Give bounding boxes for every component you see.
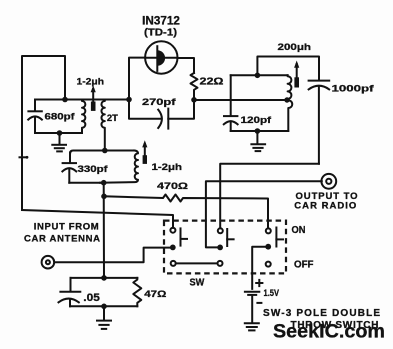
- node tunnel diode left junction: [126, 97, 132, 103]
- svg-text:120pf: 120pf: [241, 115, 273, 126]
- wire RC network bottom rail: [70, 305, 137, 307]
- svg-text:.05: .05: [83, 292, 100, 304]
- capacitor C4 1000pf: [309, 81, 330, 164]
- node 22 ohm bottom junction: [191, 97, 197, 103]
- node 680pf tank ground junction: [57, 130, 63, 136]
- node RC network ground junction: [101, 304, 107, 310]
- wire H2 output connector to switch pole2 common: [206, 181, 322, 247]
- svg-text:200μh: 200μh: [278, 42, 312, 53]
- node 120pf tank ground junction: [255, 128, 261, 134]
- resistor R1 22 ohm: [191, 73, 198, 100]
- ground under battery: [245, 323, 259, 330]
- wire outer loop from antenna switch to 680pf tank top: [22, 56, 65, 210]
- svg-text:47Ω: 47Ω: [144, 289, 166, 300]
- tunnel diode D1 1N3712 wires: [129, 58, 194, 100]
- battery BT1 1.5V: [245, 280, 263, 323]
- capacitor C1 680pf: [28, 100, 42, 134]
- inductor L4 330pf tank coil: [100, 151, 138, 183]
- wire link between pole1 and pole2 bottom throws: [176, 262, 217, 264]
- tuning slug arrow of L4 1-2uh: [142, 140, 147, 164]
- svg-text:270pf: 270pf: [142, 97, 177, 108]
- svg-text:2T: 2T: [107, 113, 118, 124]
- node coil tap: [284, 97, 289, 102]
- svg-text:CAR ANTENNA: CAR ANTENNA: [24, 233, 100, 244]
- svg-text:ON: ON: [292, 225, 306, 236]
- inductor L2 2T coil: [101, 100, 104, 151]
- wire 330pf tank bottom rail: [69, 182, 103, 184]
- svg-text:CAR RADIO: CAR RADIO: [294, 201, 356, 212]
- ground under 120pf tank: [251, 131, 265, 151]
- wire 200uh top link: [257, 57, 319, 81]
- tuning slug arrow of L1/L2 1-2uh: [91, 86, 96, 111]
- wire trunk from 330pf tank bottom down to RC network: [103, 183, 105, 278]
- wire 330pf tank top rail: [70, 151, 135, 154]
- wire H3 antenna loop to switch pole1 top: [22, 210, 173, 228]
- svg-text:1000pf: 1000pf: [332, 83, 375, 94]
- wire tap rail from 22 ohm junction to 120pf tank coil tap: [194, 99, 287, 101]
- wire pole3 common to battery: [252, 247, 265, 289]
- svg-text:1-2μh: 1-2μh: [152, 162, 183, 173]
- inductor L1 680pf tank coil: [82, 100, 85, 134]
- tuning slug arrow of L3 200uh: [294, 61, 299, 88]
- connector J2 output to car radio: [321, 174, 336, 189]
- ground under RC network: [97, 306, 111, 329]
- switch pole 1: [170, 228, 187, 266]
- wire bottom rail 680pf tank: [35, 132, 82, 134]
- switch pole 2: [217, 228, 233, 266]
- svg-text:INPUT FROM: INPUT FROM: [34, 221, 99, 232]
- wire H1 output tank to switch pole2 top: [220, 164, 319, 229]
- svg-text:(TD-1): (TD-1): [144, 27, 177, 39]
- node 470 ohm junction on trunk: [101, 194, 107, 200]
- svg-text:1.5V: 1.5V: [264, 288, 280, 299]
- svg-text:SW: SW: [190, 278, 205, 289]
- wire RC network top rail: [71, 277, 138, 279]
- tunnel diode D1 1N3712 symbol: [145, 41, 177, 73]
- capacitor C5 330pf: [62, 153, 76, 183]
- capacitor C6 .05: [59, 278, 81, 306]
- svg-text:22Ω: 22Ω: [200, 76, 224, 87]
- switch pole 3: [265, 228, 283, 267]
- capacitor C2 270pf loop: [129, 100, 194, 129]
- svg-text:SW-3 POLE DOUBLE: SW-3 POLE DOUBLE: [263, 308, 380, 319]
- node 120pf tank top junction: [255, 73, 261, 79]
- wire antenna to switch pole1 common: [54, 248, 170, 263]
- tick mark on left wire: [20, 156, 29, 159]
- svg-text:1-2μh: 1-2μh: [77, 76, 105, 87]
- svg-text:470Ω: 470Ω: [157, 181, 189, 192]
- svg-text:330pf: 330pf: [78, 164, 109, 175]
- svg-text:OFF: OFF: [294, 259, 314, 270]
- svg-text:SeekIC.com: SeekIC.com: [273, 321, 385, 343]
- wire bottom rail 120pf tank: [231, 130, 289, 132]
- resistor R2 470 ohm: [104, 195, 268, 229]
- wire top rail of 680pf tank to tunnel diode junction: [35, 99, 129, 101]
- capacitor C3 120pf: [224, 75, 238, 131]
- node 2T bottom junction: [102, 148, 108, 154]
- resistor R3 47 ohm: [133, 278, 141, 306]
- node 330pf tank bottom junction: [101, 180, 107, 186]
- switch SW dashed enclosure: [164, 221, 286, 274]
- ground under 680pf tank: [52, 133, 66, 151]
- wire top rail of 120pf tank: [231, 74, 288, 76]
- inductor L3 tapped coil 200uh: [288, 75, 293, 131]
- node junction outer loop / tank top: [62, 97, 68, 103]
- node RC network top junction: [101, 275, 107, 281]
- svg-text:680pf: 680pf: [45, 112, 76, 123]
- connector J1 input from car antenna: [42, 256, 55, 269]
